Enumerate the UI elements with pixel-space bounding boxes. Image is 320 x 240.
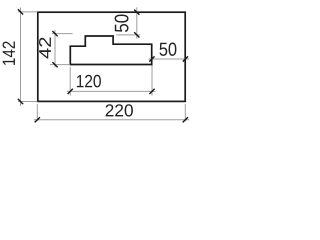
dimension 220: extension line left <box>36 104 38 121</box>
dimension 120: extension line left <box>69 67 71 96</box>
dimension 42: extension line bottom <box>50 64 70 66</box>
dimension 42: tick bottom <box>52 62 57 67</box>
dimension 50 top: dimension line <box>136 7 138 38</box>
dimension 220: label text <box>106 104 133 116</box>
part outline: stepped profile <box>70 36 151 65</box>
part outline: outer rectangle <box>38 12 185 101</box>
dimension 220: tick left <box>35 117 40 122</box>
dimension 120: tick left <box>68 89 73 94</box>
dimension 50 top: tick top <box>134 10 139 15</box>
dimension 50 top: tick bottom <box>134 32 139 37</box>
dimension 42: tick top <box>52 31 57 36</box>
dimension 120: tick right <box>149 89 154 94</box>
dimension 220: tick right <box>183 117 188 122</box>
dimension 42: label text (rotated) <box>39 38 51 59</box>
dimension 50 right: dimension line <box>148 58 189 60</box>
dimension 142: label text (rotated) <box>3 42 15 65</box>
dimension 42: extension line top <box>52 33 73 35</box>
dimension 220: dimension line <box>34 119 189 121</box>
dimension 120: extension line right <box>151 66 153 96</box>
dimension 42: dimension line <box>54 30 56 68</box>
dimension 142: tick bottom <box>18 99 23 104</box>
dimension 142: tick top <box>18 9 23 14</box>
dimension 142: extension line bottom <box>18 101 37 103</box>
dimension 142: extension line top <box>18 11 37 13</box>
dimension 120: dimension line <box>67 90 156 92</box>
dimension 50 top: extension line bottom <box>116 34 140 36</box>
dimension 120: label text <box>77 75 101 88</box>
dimension 220: extension line right <box>184 104 186 121</box>
dimension 50 right: tick left <box>149 56 154 61</box>
dimension 50 right: label text <box>160 43 177 56</box>
dimension 50 top: label text (rotated) <box>115 15 129 33</box>
dimension 142: dimension line <box>20 8 22 107</box>
dimension 50 right: tick right <box>183 56 188 61</box>
